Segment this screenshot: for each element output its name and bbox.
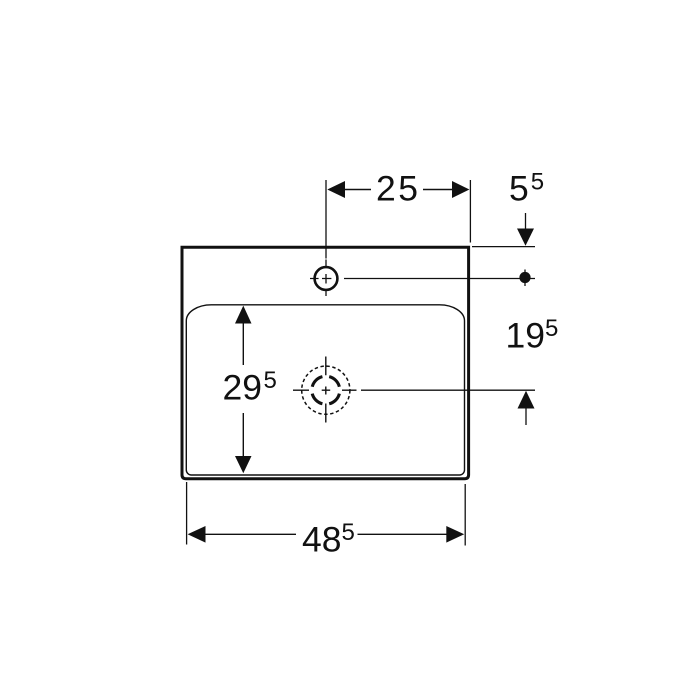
dim 25 right arrow <box>452 181 469 198</box>
dim 48.5 left extension line <box>186 482 188 545</box>
drain inner bold circle arcs <box>312 377 339 404</box>
dim 25 line left segment <box>344 189 371 191</box>
dim 29.5 line upper segment <box>242 323 244 366</box>
svg-text:195: 195 <box>506 315 559 355</box>
faucet hole circle <box>315 267 338 290</box>
dim 5.5 arrow tail <box>525 213 527 229</box>
drain centerline horizontal <box>293 389 357 391</box>
dim 48.5 right extension line <box>464 484 466 546</box>
basin bowl inner outline <box>186 305 464 475</box>
faucet leader line to dot <box>344 278 535 280</box>
dot vertical tick <box>524 270 526 287</box>
dim 29.5 up arrow <box>235 306 252 324</box>
dim 5.5 down arrow <box>517 229 534 246</box>
dim 25 left arrow <box>327 181 345 198</box>
dim 25 left extension line <box>325 180 327 259</box>
dim 48.5 line right segment <box>358 533 448 535</box>
dim 29.5 line lower segment <box>242 413 244 457</box>
dim 29.5 down arrow <box>235 456 252 473</box>
dim 48.5 line left segment <box>205 533 297 535</box>
drain leader line to right <box>361 389 535 391</box>
dim 19.5 up arrow <box>518 391 535 409</box>
dot terminator <box>519 272 530 283</box>
svg-text:25: 25 <box>376 169 421 209</box>
svg-text:485: 485 <box>302 519 355 559</box>
dim 19.5 arrow tail <box>525 408 527 425</box>
dim 48.5 left arrow <box>188 526 206 543</box>
dim 25 line right segment <box>423 189 453 191</box>
svg-text:295: 295 <box>223 367 277 407</box>
faucet hole centerline vertical <box>325 260 327 297</box>
svg-text:55: 55 <box>509 168 544 208</box>
faucet hole centerline horizontal <box>310 278 331 280</box>
dim 48.5 right arrow <box>446 526 464 543</box>
washbasin outer outline <box>182 247 469 479</box>
dim 25 right extension line <box>469 180 471 243</box>
drain centerline vertical <box>325 357 327 423</box>
top edge extension line right <box>472 246 535 248</box>
drain outer dashed circle <box>302 366 350 414</box>
